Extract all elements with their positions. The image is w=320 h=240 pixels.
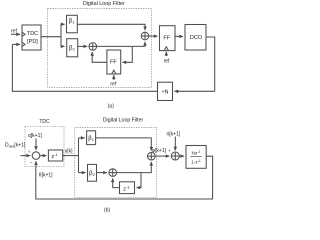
block beta2 (b) — [88, 164, 97, 181]
wire tap down to z-1b input — [137, 173, 142, 188]
wire z-1b output back to S4 — [113, 178, 120, 187]
svg-text:DCO: DCO — [190, 35, 203, 41]
summer S5 (b main adder) — [148, 152, 156, 160]
pin clock mark TDC input 1 — [22, 32, 25, 36]
wire beta2 output into summer S4 — [97, 172, 107, 174]
block beta1 (a) — [67, 15, 78, 33]
wire TDC output to split — [41, 36, 61, 38]
svg-text:(a): (a) — [108, 103, 114, 109]
svg-text:β1: β1 — [88, 136, 94, 142]
block z-1 (b TDC) — [48, 150, 62, 161]
wire clock stub ref (a accumulator FF) — [113, 75, 115, 80]
svg-text:Digital Loop Filter: Digital Loop Filter — [103, 117, 144, 123]
svg-text:FF: FF — [163, 35, 170, 41]
svg-text:Ddes[k+1]: Ddes[k+1] — [5, 142, 26, 148]
wire into divider — [175, 90, 215, 92]
block divider N — [158, 82, 173, 100]
svg-text:ref: ref — [110, 81, 116, 87]
svg-text:[PD]: [PD] — [27, 39, 38, 45]
dashed box Digital Loop Filter (b) — [75, 128, 157, 198]
summer S2 (a main adder) — [141, 32, 149, 40]
wire S5 output to summer S6 — [155, 155, 169, 157]
wire theta feedback into S3 bottom — [35, 161, 37, 166]
svg-text:FF: FF — [110, 59, 117, 65]
svg-text:TDC: TDC — [39, 119, 50, 125]
wire summer S2 output to FF2 — [149, 35, 158, 37]
summer S3 (b TDC adder) — [32, 152, 40, 160]
block beta1 (b) — [87, 131, 96, 145]
svg-text:n[k+1]: n[k+1] — [167, 131, 181, 137]
svg-text:Digital Loop Filter: Digital Loop Filter — [83, 1, 125, 7]
wire S1 output to summer S2 bottom — [97, 42, 145, 47]
wire split vertical — [60, 24, 62, 46]
wire feedback into TDC input 2 — [12, 43, 20, 45]
block beta2 (a) — [67, 39, 78, 57]
flip-flop FF2 (a retiming) — [160, 26, 176, 51]
svg-text:γ[k]: γ[k] — [65, 149, 73, 155]
wire divider output feedback — [12, 44, 157, 91]
summer S6 (b noise adder) — [171, 152, 179, 160]
wire into beta1 — [61, 23, 65, 25]
svg-text:q[k+1]: q[k+1] — [28, 133, 42, 139]
wire H(z) output feedback theta — [36, 156, 213, 199]
pin clock triangle FF (a accumulator) — [112, 70, 116, 74]
svg-text:−: − — [30, 160, 33, 166]
wire beta1 output to summer S2 top — [77, 24, 145, 30]
wire n into summer S6 — [174, 137, 176, 151]
block DCO — [185, 25, 206, 51]
svg-text:θ[k+1]: θ[k+1] — [39, 173, 53, 179]
wire DCO output down — [206, 37, 215, 91]
block z-1 (b accumulator) — [120, 182, 135, 194]
flip-flop FF (a accumulator register) — [107, 50, 121, 74]
svg-text:÷N: ÷N — [162, 89, 169, 95]
wire split vertical (b) — [78, 138, 80, 173]
svg-text:+: + — [28, 149, 31, 154]
wire ref input to TDC — [11, 33, 20, 35]
wire into beta2 (b) — [79, 172, 86, 174]
svg-text:TDC: TDC — [27, 31, 38, 37]
summer S4 (b accumulator adder) — [109, 169, 117, 177]
block H(z) Nz-1/(1-z-1) — [186, 146, 206, 169]
wire FF output back to summer S1 — [92, 52, 107, 62]
wire beta2 output into summer S1 — [78, 45, 88, 47]
dashed box Digital Loop Filter (a) — [48, 9, 152, 88]
wire tap down to FF input — [123, 46, 133, 62]
svg-text:(b): (b) — [104, 208, 110, 214]
wire Ddes into summer S3 — [21, 155, 31, 157]
wire FF2 to DCO — [175, 35, 183, 37]
wire S6 to H(z) — [179, 155, 184, 157]
wire S3 to z-1 — [40, 155, 47, 157]
pin clock mark TDC input 2 — [22, 43, 25, 47]
wire clock stub ref FF2 — [165, 52, 167, 56]
svg-text:φ[k+1]: φ[k+1] — [152, 148, 167, 154]
summer S1 (a accumulator adder) — [89, 43, 97, 51]
wire z-1 output to split (b) — [63, 155, 79, 157]
wire into beta1 (b) — [79, 137, 85, 139]
svg-text:ref: ref — [11, 29, 17, 35]
wire beta1 output to summer S5 top — [96, 138, 152, 151]
wire into beta2 — [61, 45, 65, 47]
dashed box TDC (b) — [25, 127, 64, 167]
svg-text:β2: β2 — [69, 45, 75, 51]
wire S4 output to summer S5 bottom — [117, 162, 152, 173]
svg-text:ref: ref — [164, 59, 170, 65]
block TDC [PD] U1 — [22, 25, 41, 50]
svg-text:β2: β2 — [89, 171, 95, 177]
pin clock triangle FF2 — [164, 47, 168, 51]
svg-text:+: + — [168, 148, 171, 153]
wire q into summer S3 — [35, 139, 37, 151]
svg-text:β1: β1 — [69, 19, 75, 25]
